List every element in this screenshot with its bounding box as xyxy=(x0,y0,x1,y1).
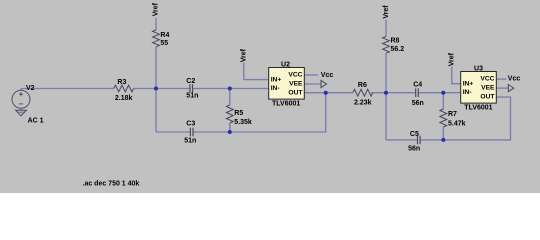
svg-text:R6: R6 xyxy=(358,82,367,89)
wire xyxy=(496,78,506,80)
svg-text:IN+: IN+ xyxy=(271,76,282,83)
wire xyxy=(155,47,157,132)
capacitor C4 xyxy=(412,82,424,107)
svg-text:R4: R4 xyxy=(160,32,169,39)
svg-text:Vref: Vref xyxy=(241,48,248,62)
ground port on U3 VEE xyxy=(508,85,514,92)
node A junction xyxy=(154,87,158,91)
svg-text:Vref: Vref xyxy=(449,52,456,66)
svg-text:U2: U2 xyxy=(281,61,290,68)
capacitor C5 xyxy=(408,131,420,152)
svg-text:VEE: VEE xyxy=(481,85,495,92)
wire xyxy=(418,92,461,94)
svg-text:C3: C3 xyxy=(186,121,195,128)
op-amp U2 xyxy=(269,61,305,107)
wire xyxy=(304,92,353,94)
resistor R5 xyxy=(226,105,252,126)
wire xyxy=(304,74,318,76)
wire xyxy=(371,92,415,94)
svg-text:IN+: IN+ xyxy=(463,80,474,87)
svg-text:R8: R8 xyxy=(391,38,400,45)
svg-text:OUT: OUT xyxy=(288,89,303,96)
resistor R8 xyxy=(383,37,405,54)
svg-text:56n: 56n xyxy=(412,100,424,107)
node D junction xyxy=(324,91,328,95)
node C junction xyxy=(228,130,232,134)
svg-text:R7: R7 xyxy=(448,111,457,118)
svg-text:VEE: VEE xyxy=(289,81,303,88)
wire xyxy=(452,67,461,84)
wire xyxy=(193,131,326,133)
wire xyxy=(496,87,508,89)
svg-text:IN-: IN- xyxy=(463,89,472,96)
wire xyxy=(21,88,114,90)
wire xyxy=(193,88,269,90)
wire xyxy=(304,83,321,85)
op-amp U3 xyxy=(461,65,497,111)
svg-text:C2: C2 xyxy=(186,78,195,85)
capacitor C2 xyxy=(186,78,198,99)
svg-text:2.23k: 2.23k xyxy=(354,99,372,106)
svg-text:R3: R3 xyxy=(117,79,126,86)
node F junction xyxy=(441,138,445,142)
svg-text:56.2: 56.2 xyxy=(391,46,405,53)
wire xyxy=(156,131,190,133)
svg-text:51n: 51n xyxy=(184,138,196,145)
svg-text:C5: C5 xyxy=(410,131,419,138)
node E junction xyxy=(384,91,388,95)
wire xyxy=(229,89,231,106)
node G junction xyxy=(441,91,445,95)
wire xyxy=(134,88,190,90)
svg-text:VCC: VCC xyxy=(480,76,494,83)
svg-text:OUT: OUT xyxy=(480,93,495,100)
svg-text:V2: V2 xyxy=(26,85,35,92)
resistor R7 xyxy=(440,109,466,128)
svg-text:.ac dec 750 1 40k: .ac dec 750 1 40k xyxy=(83,180,140,187)
ground xyxy=(16,109,27,116)
wire xyxy=(385,20,387,37)
node B junction xyxy=(228,87,232,91)
svg-text:5.47k: 5.47k xyxy=(448,121,466,128)
svg-text:51n: 51n xyxy=(186,92,198,99)
svg-text:AC 1: AC 1 xyxy=(28,118,44,125)
svg-text:U3: U3 xyxy=(474,65,483,72)
wire xyxy=(420,97,510,140)
wire xyxy=(155,18,157,30)
wire xyxy=(442,127,444,140)
resistor R3 xyxy=(114,79,134,102)
svg-text:Vref: Vref xyxy=(383,5,390,19)
capacitor C3 xyxy=(184,121,196,145)
wire xyxy=(325,93,327,132)
svg-text:Vcc: Vcc xyxy=(508,76,521,83)
wire xyxy=(229,123,231,132)
svg-text:5.35k: 5.35k xyxy=(234,119,252,126)
svg-text:Vcc: Vcc xyxy=(321,72,334,79)
voltage source V2 xyxy=(12,85,44,125)
svg-text:TLV6001: TLV6001 xyxy=(272,101,300,108)
svg-text:VCC: VCC xyxy=(288,72,302,79)
svg-text:Vref: Vref xyxy=(153,2,160,16)
ground port on U2 VEE xyxy=(321,80,327,87)
wire xyxy=(442,93,444,109)
wire xyxy=(385,54,387,140)
resistor R6 xyxy=(353,82,373,106)
svg-text:R5: R5 xyxy=(234,110,243,117)
resistor R4 xyxy=(153,30,170,47)
svg-text:56n: 56n xyxy=(408,146,420,153)
svg-text:TLV6001: TLV6001 xyxy=(464,104,492,111)
svg-text:2.18k: 2.18k xyxy=(115,95,133,102)
svg-text:IN-: IN- xyxy=(271,85,280,92)
wire xyxy=(20,89,22,91)
wire xyxy=(244,63,269,80)
svg-text:C4: C4 xyxy=(413,82,422,89)
svg-text:55: 55 xyxy=(160,40,168,47)
wire xyxy=(386,139,417,141)
